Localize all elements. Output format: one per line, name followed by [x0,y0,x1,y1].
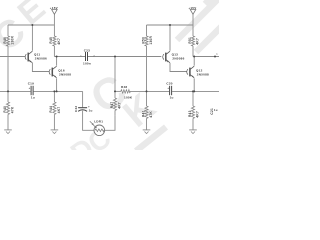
svg-text:2N5088: 2N5088 [197,73,209,77]
svg-text:4K7: 4K7 [57,107,61,114]
svg-text:LDR1: LDR1 [94,120,103,124]
wire mid row right [193,56,219,58]
svg-text:+15V: +15V [50,6,58,10]
ground R41 [143,130,151,134]
resistor R48 100K [121,90,130,93]
svg-text:100n: 100n [83,62,91,66]
svg-text:+: + [88,105,90,109]
wire Q11 emitter drop x=32.4 [31,25,33,51]
node mid Q12 leg [193,56,195,58]
power +15V left [52,10,58,15]
svg-text:C23: C23 [84,48,90,52]
svg-text:4K7: 4K7 [117,102,121,109]
ground left [4,130,12,134]
capacitor C20 1u (series in lower-right wire) [170,86,172,95]
svg-text:C20: C20 [166,82,172,86]
svg-text:C22: C22 [74,106,78,112]
wire lower right row [115,90,121,92]
wire R43 rail [192,91,194,106]
resistor R45 4K7 [53,36,56,46]
svg-text:R40: R40 [3,106,7,113]
capacitor C23 100n (series in mid wire) [86,52,88,61]
wire Q12 top leg [193,57,195,66]
svg-text:R47: R47 [110,102,114,109]
wire x=115 rail [114,57,116,99]
watermark center diagonal letters [65,65,164,169]
svg-text:100K: 100K [124,96,133,100]
wire Q16 top leg [56,57,58,66]
wire C22 drop [82,91,84,107]
wire +15V rail x=54.4 top [53,14,55,36]
wire top-right horizontal [147,24,194,26]
wire +15V rail right x=193 [192,14,194,36]
node lower R44 [53,90,55,92]
svg-text:4K7: 4K7 [195,38,199,45]
svg-text:130R: 130R [10,36,14,45]
node top-right junction [169,24,171,26]
transistor Q11 2N5086 [25,51,32,63]
svg-text:47K: 47K [149,111,153,118]
transistor Q12 2N5088 [187,66,194,78]
wire mid row from R45 corner to Q13 [54,56,85,58]
node mid x115 [114,56,116,58]
wire R44 rail [53,91,55,102]
svg-text:2N5086: 2N5086 [35,56,47,60]
node mid Q16 leg [56,56,58,58]
svg-text:C19: C19 [28,82,34,86]
watermark top-left letters [0,0,53,60]
svg-text:R51: R51 [188,37,192,44]
ground R43 [189,130,197,134]
resistor R41 47K [145,106,148,118]
resistor R40 47K [6,102,9,114]
resistor R43 4K7 [191,106,194,118]
transistor Q16 2N5088 [49,66,56,78]
node lower Q16 leg [56,90,58,92]
wire Q13 collector to Q12 base [170,63,187,72]
svg-text:1: 1 [216,53,218,56]
wire x=146.5 rail [146,25,148,36]
wire Q12 bottom leg [193,78,195,91]
node lower x115 [114,90,116,92]
node lower Q12 leg [193,90,195,92]
resistor R44 4K7 [53,102,56,114]
svg-text:R44: R44 [49,106,53,113]
svg-text:4K7: 4K7 [57,38,61,45]
svg-text:1u: 1u [214,108,218,112]
wire top-left horizontal [8,24,54,26]
resistor R51 4K7 [191,36,194,46]
wire base row left edge [0,56,25,58]
svg-text:4K7: 4K7 [195,111,199,118]
svg-text:1u: 1u [31,95,35,99]
svg-text:+: + [167,86,169,90]
wire R47 to LDR [105,116,115,131]
resistor R47 4K7 [113,98,116,110]
svg-text:R50: R50 [141,37,145,44]
node top-left junction [31,24,33,26]
watermark bands top-right [136,0,232,151]
wire lower-left row [0,90,31,92]
wire Q11 collector to Q16 base [32,63,49,72]
svg-text:R48: R48 [121,85,127,89]
svg-text:1u: 1u [89,109,93,113]
resistor R46 130R [6,36,9,46]
capacitor C22 1u (vertical, electrolytic) [78,108,87,112]
svg-text:R46: R46 [3,37,7,44]
wire Q16 bottom leg [56,78,58,91]
resistor R50 130R [145,36,148,46]
svg-text:1u: 1u [170,95,174,99]
svg-text:R41: R41 [141,110,145,117]
node lower x146 [146,90,148,92]
wire Q13 emitter drop x=170 [169,25,171,51]
ground R44 [51,130,59,134]
power +15V right [190,10,196,15]
svg-text:R43: R43 [188,110,192,117]
svg-text:+15V: +15V [188,6,196,10]
svg-text:R45: R45 [49,37,53,44]
node lower R43 [192,90,194,92]
capacitor C19 1u (series in lower-left wire) [31,86,33,95]
svg-text:2N5086: 2N5086 [172,56,184,60]
svg-text:2N5088: 2N5088 [59,73,71,77]
svg-text:47K: 47K [10,106,14,113]
transistor Q13 2N5086 [163,51,170,63]
wire left rail x=8 [7,25,9,36]
node left rail lower [7,90,9,92]
svg-text:+: + [29,86,31,90]
node mid right end [214,56,216,58]
svg-text:130R: 130R [149,36,153,45]
